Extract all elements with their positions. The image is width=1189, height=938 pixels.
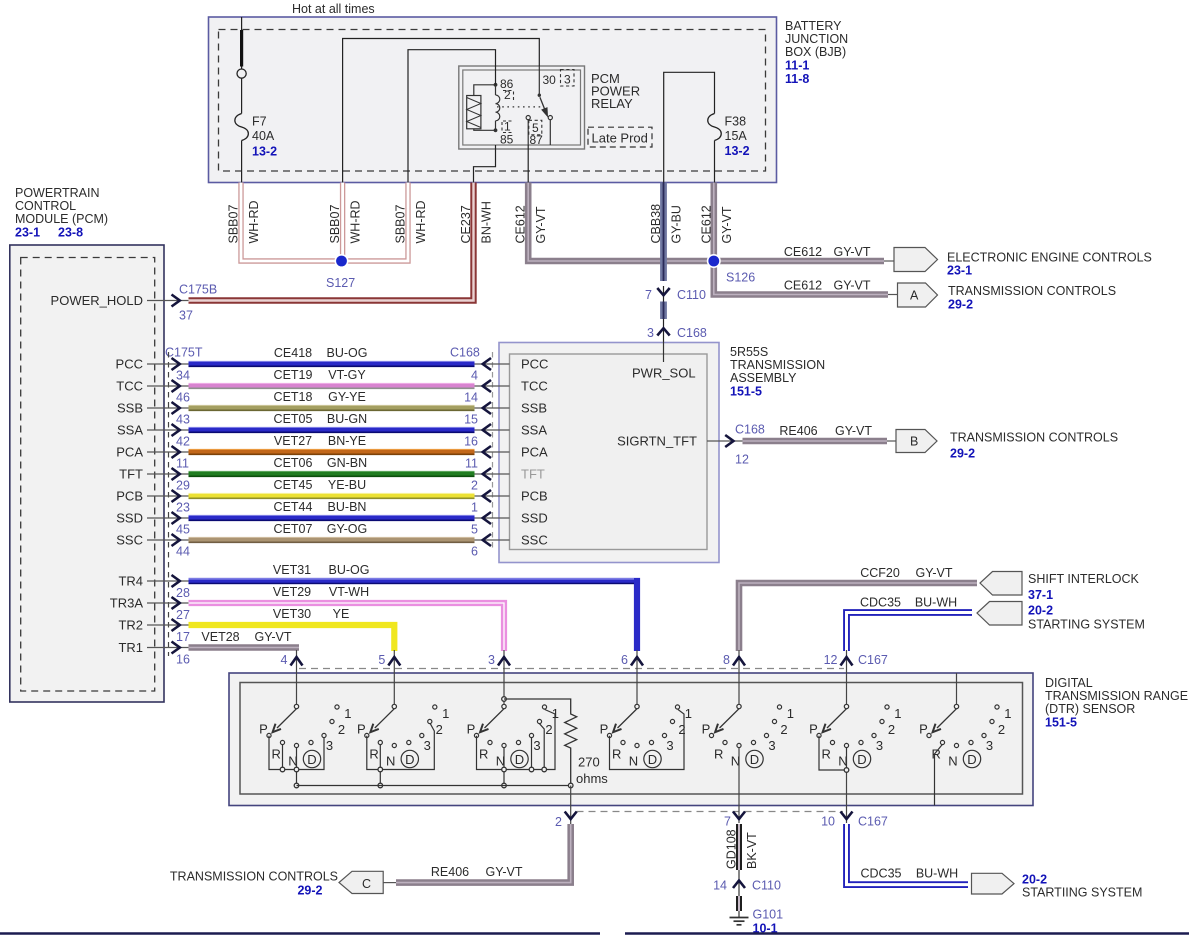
svg-text:TRANSMISSION CONTROLS: TRANSMISSION CONTROLS <box>948 284 1116 298</box>
wire label CET19 VT-GY <box>274 368 367 382</box>
fuse F38 15A <box>664 72 750 182</box>
svg-text:VET31: VET31 <box>273 563 311 577</box>
wire: relay pin 87 to CE612 exit (inside BJB) <box>527 145 529 183</box>
svg-text:VET28: VET28 <box>201 630 239 644</box>
svg-text:4: 4 <box>281 653 288 667</box>
svg-text:TRANSMISSION CONTROLS: TRANSMISSION CONTROLS <box>170 870 338 884</box>
svg-text:G101: G101 <box>753 908 784 922</box>
wire label CET44 BU-BN <box>274 500 367 514</box>
wire label CDC35 BU-WH (bottom) <box>861 867 959 881</box>
wire CE612 GY-VT (relay 87 to S126 and electronic engine controls) <box>528 183 884 262</box>
svg-text:23-8: 23-8 <box>58 226 83 240</box>
svg-text:GY-VT: GY-VT <box>254 630 291 644</box>
svg-text:27: 27 <box>176 608 190 622</box>
wire: relay pin 86 to SBB07 feed (inside BJB) <box>408 50 496 183</box>
C168 pin number 4 <box>471 369 478 383</box>
svg-text:PCC: PCC <box>116 357 143 372</box>
transmission assembly pin label SSB <box>521 401 547 416</box>
svg-text:8: 8 <box>723 653 730 667</box>
PCM pin number 23 <box>176 501 190 515</box>
svg-text:RE406: RE406 <box>431 865 469 879</box>
svg-text:GY-BU: GY-BU <box>670 205 684 243</box>
svg-text:85: 85 <box>500 133 514 147</box>
connector C168 pin 3 (in-line, up arrow) <box>647 326 707 340</box>
C168 pin number 2 <box>471 479 478 493</box>
svg-text:POWERTRAIN: POWERTRAIN <box>15 186 100 200</box>
svg-text:151-5: 151-5 <box>730 385 762 399</box>
svg-text:YE-BU: YE-BU <box>328 478 366 492</box>
relay coil (pins 86/85) <box>467 83 500 132</box>
svg-text:GY-VT: GY-VT <box>833 245 870 259</box>
svg-text:S126: S126 <box>726 271 755 285</box>
DTR switch SW6 (pins 12/10) <box>809 704 901 823</box>
C168 pin SSD stub and arrow <box>475 512 510 524</box>
svg-text:16: 16 <box>464 435 478 449</box>
DTR switch SW5 (pins 8/7) <box>702 704 794 823</box>
svg-text:TR4: TR4 <box>118 574 143 589</box>
wire stub SIGRTN_TFT out of assembly <box>707 435 743 447</box>
svg-text:C110: C110 <box>752 879 781 893</box>
wire CE237 BN-WH (relay 85 to PCM POWER_HOLD) <box>189 183 474 301</box>
ground G101 <box>730 908 784 936</box>
DTR switch SW3 (pin 3, with resistor tap) <box>467 697 559 788</box>
wire label CBB38 GY-BU <box>649 204 684 244</box>
relay pin 1 label (late prod) <box>502 120 513 134</box>
wire CET45 YE-BU <box>189 494 475 499</box>
transmission assembly pin label TFT <box>521 467 545 482</box>
transmission assembly pin label PCB <box>521 489 548 504</box>
PCM pin TR1 stub and arrow <box>118 640 188 655</box>
wire label RE406 GY-VT (bottom) <box>431 865 523 879</box>
svg-text:SSD: SSD <box>116 511 143 526</box>
page footer rule (right segment) <box>625 932 1189 934</box>
svg-text:F38: F38 <box>725 115 747 129</box>
DTR pin 12 lead <box>846 650 848 704</box>
powertrain control module (PCM) outline <box>10 245 164 702</box>
DTR pin 6 lead <box>636 650 638 704</box>
svg-text:4: 4 <box>471 369 478 383</box>
PCM pin number 29 <box>176 479 190 493</box>
wire SBB07 WH-RD (relay 30 to S127) <box>340 183 345 259</box>
svg-text:BN-YE: BN-YE <box>328 434 366 448</box>
battery junction box (BJB) outline <box>209 17 777 183</box>
svg-text:ASSEMBLY: ASSEMBLY <box>730 371 797 385</box>
svg-text:GD108: GD108 <box>725 829 739 869</box>
transmission assembly internal label SIGRTN_TFT <box>617 434 697 449</box>
svg-text:SSD: SSD <box>521 511 548 526</box>
wire CET44 BU-BN <box>189 516 475 521</box>
svg-text:11: 11 <box>465 457 478 471</box>
wire label CCF20 GY-VT <box>860 566 953 580</box>
wire label VET29 VT-WH <box>273 585 369 599</box>
svg-text:6: 6 <box>471 545 478 559</box>
svg-text:GY-VT: GY-VT <box>485 865 522 879</box>
svg-text:BU-OG: BU-OG <box>327 346 368 360</box>
svg-text:BU-BN: BU-BN <box>328 500 367 514</box>
connector C110 pin 7 (in-line, down arrow) <box>645 288 706 302</box>
DTR pin 3 arrow (up) <box>488 653 510 667</box>
svg-text:TRANSMISSION RANGE: TRANSMISSION RANGE <box>1045 689 1188 703</box>
svg-text:C175B: C175B <box>179 283 217 297</box>
svg-text:B: B <box>910 435 918 449</box>
wire CET18 GY-YE <box>189 406 475 411</box>
relay mechanical link (dotted) <box>497 106 541 108</box>
C168 pin PCC stub and arrow <box>475 358 510 370</box>
svg-text:BU-WH: BU-WH <box>915 596 957 610</box>
svg-text:CET06: CET06 <box>274 456 313 470</box>
svg-text:11: 11 <box>176 457 189 471</box>
svg-text:DIGITAL: DIGITAL <box>1045 676 1093 690</box>
PCM pin TCC stub and arrow <box>116 379 188 394</box>
svg-text:14: 14 <box>713 879 727 893</box>
relay name label <box>591 71 640 111</box>
svg-text:SSC: SSC <box>116 533 143 548</box>
C168 pin number 16 <box>464 435 478 449</box>
svg-text:3: 3 <box>488 653 495 667</box>
transmission assembly pin label PCC <box>521 357 548 372</box>
wire VET30 YE (TR2 to DTR pin 5) <box>189 625 395 651</box>
svg-text:45: 45 <box>176 523 190 537</box>
splice S126 <box>708 255 756 285</box>
relay pin 2 label (late prod) <box>503 88 514 103</box>
relay pin 3 label (late prod, dashed box) <box>561 70 575 87</box>
DTR switch SW1 (pin 4) <box>259 704 351 788</box>
splice S127 <box>326 255 355 290</box>
PCM pin TFT stub and arrow <box>119 467 188 482</box>
relay pin 30 label <box>543 73 557 87</box>
DTR pin 10 arrow (down) <box>821 812 852 829</box>
C168 pin PCA stub and arrow <box>475 446 510 458</box>
PCM pin TR3A stub and arrow <box>110 596 189 611</box>
DTR pin 5 lead <box>393 650 395 704</box>
PCM pin number 45 <box>176 523 190 537</box>
C168 pin number 1 <box>471 501 478 515</box>
Late Prod dashed box <box>588 127 652 147</box>
svg-text:TR1: TR1 <box>118 640 143 655</box>
wire label CET18 GY-YE <box>274 390 366 404</box>
svg-text:CET19: CET19 <box>274 368 313 382</box>
wire label CET45 YE-BU <box>274 478 367 492</box>
svg-text:12: 12 <box>824 653 838 667</box>
svg-text:CE612: CE612 <box>784 279 822 293</box>
wire label CDC35 BU-WH <box>860 596 957 610</box>
svg-text:RELAY: RELAY <box>591 96 633 111</box>
digital transmission range (DTR) sensor outline <box>229 673 1033 806</box>
svg-text:Hot at all times: Hot at all times <box>292 2 375 16</box>
wire CET05 BU-GN <box>189 428 475 433</box>
wire CE612 GY-VT (F38 through S126 to transmission controls A) <box>714 183 888 295</box>
PCM pin PCB stub and arrow <box>116 489 188 504</box>
svg-text:17: 17 <box>176 630 190 644</box>
svg-text:GY-VT: GY-VT <box>835 424 872 438</box>
svg-text:GY-VT: GY-VT <box>915 566 952 580</box>
svg-text:BOX (BJB): BOX (BJB) <box>785 45 846 59</box>
svg-text:2: 2 <box>471 479 478 493</box>
wire label CE612 GY-VT (to EEC) <box>784 245 871 259</box>
svg-text:TR2: TR2 <box>118 618 143 633</box>
svg-text:A: A <box>910 289 919 303</box>
svg-text:29-2: 29-2 <box>297 884 322 898</box>
svg-text:7: 7 <box>645 288 652 302</box>
svg-text:C110: C110 <box>677 288 706 302</box>
svg-text:PCB: PCB <box>521 489 548 504</box>
svg-text:C175T: C175T <box>165 346 203 360</box>
svg-text:SIGRTN_TFT: SIGRTN_TFT <box>617 434 697 449</box>
wire label CET06 GN-BN <box>274 456 368 470</box>
svg-text:11-8: 11-8 <box>785 72 809 86</box>
svg-text:VT-GY: VT-GY <box>328 368 366 382</box>
svg-text:JUNCTION: JUNCTION <box>785 32 848 46</box>
DTR pin 8 arrow (up) <box>723 653 745 667</box>
wire VET27 BN-YE <box>189 450 475 455</box>
PCM pin SSD stub and arrow <box>116 511 188 526</box>
svg-text:C167: C167 <box>858 815 888 829</box>
transmission assembly pin label SSD <box>521 511 548 526</box>
svg-text:TRANSMISSION: TRANSMISSION <box>730 358 825 372</box>
C168 pin number 11 <box>465 457 478 471</box>
svg-text:PWR_SOL: PWR_SOL <box>632 366 696 381</box>
svg-text:34: 34 <box>176 369 190 383</box>
C168 pin SSA stub and arrow <box>475 424 510 436</box>
connector C110 pin 14 (up arrow) <box>713 879 781 893</box>
svg-text:CDC35: CDC35 <box>861 867 902 881</box>
DTR pin 4 lead <box>296 650 298 704</box>
svg-text:C168: C168 <box>450 346 480 360</box>
svg-text:C: C <box>362 877 371 891</box>
svg-text:PCA: PCA <box>116 445 143 460</box>
svg-text:PCA: PCA <box>521 445 548 460</box>
svg-text:VT-WH: VT-WH <box>329 585 369 599</box>
wire CDC35 BU-WH (DTR pin 10 to starting system) <box>847 824 969 885</box>
wire label CE418 BU-OG <box>274 346 368 360</box>
DTR pin 2 lead <box>570 786 572 825</box>
svg-text:TFT: TFT <box>119 467 143 482</box>
relay switch (pins 30/87) <box>526 66 552 145</box>
wire label SBB07 WH-RD <box>394 200 429 243</box>
PCM pin number 44 <box>176 545 190 559</box>
svg-text:GY-OG: GY-OG <box>327 522 368 536</box>
wire label VET31 BU-OG <box>273 563 370 577</box>
C168 pin TFT stub and arrow <box>475 468 510 480</box>
PCM pin number 27 <box>176 608 190 622</box>
svg-text:MODULE (PCM): MODULE (PCM) <box>15 212 108 226</box>
off-page connector B: transmission controls <box>896 430 1118 461</box>
svg-text:CET05: CET05 <box>274 412 313 426</box>
svg-text:ELECTRONIC ENGINE CONTROLS: ELECTRONIC ENGINE CONTROLS <box>947 251 1152 265</box>
relay pin 5 label (late prod, dashed box) <box>529 120 542 135</box>
wire label CET07 GY-OG <box>274 522 368 536</box>
svg-text:TRANSMISSION CONTROLS: TRANSMISSION CONTROLS <box>950 431 1118 445</box>
svg-text:CET44: CET44 <box>274 500 313 514</box>
svg-text:(DTR) SENSOR: (DTR) SENSOR <box>1045 702 1135 716</box>
wire label CE612 GY-VT <box>700 205 735 243</box>
svg-text:SSB: SSB <box>117 401 143 416</box>
svg-text:42: 42 <box>176 435 190 449</box>
svg-text:C168: C168 <box>735 423 765 437</box>
svg-text:BU-OG: BU-OG <box>329 563 370 577</box>
svg-text:YE: YE <box>333 607 350 621</box>
wire VET28 GY-VT (TR1 to DTR pin 4) <box>189 644 300 650</box>
svg-text:Late Prod: Late Prod <box>592 130 648 145</box>
svg-text:STARTIING SYSTEM: STARTIING SYSTEM <box>1022 886 1142 900</box>
DTR internal bus wire <box>297 783 574 788</box>
C168 pin SSB stub and arrow <box>475 402 510 414</box>
svg-text:30: 30 <box>543 73 557 87</box>
svg-text:TFT: TFT <box>521 467 545 482</box>
svg-text:GN-BN: GN-BN <box>327 456 367 470</box>
svg-text:GY-VT: GY-VT <box>833 279 870 293</box>
svg-text:2: 2 <box>555 815 562 829</box>
svg-text:SSB: SSB <box>521 401 547 416</box>
DTR pin 5 arrow (up) <box>378 653 400 667</box>
svg-text:20-2: 20-2 <box>1028 604 1053 618</box>
wire label SBB07 WH-RD <box>328 200 363 243</box>
svg-text:CET07: CET07 <box>274 522 313 536</box>
svg-text:29-2: 29-2 <box>950 447 975 461</box>
wire: relay pin 30 to SBB07 feed (inside BJB) <box>343 39 540 183</box>
C168 pin number 14 <box>464 391 478 405</box>
PCM pin number 46 <box>176 391 190 405</box>
BJB label <box>785 19 848 86</box>
svg-text:3: 3 <box>564 73 571 87</box>
wire label VET28 GY-VT <box>201 630 291 644</box>
svg-text:13-2: 13-2 <box>252 145 277 159</box>
wire VET29 VT-WH (TR3A to DTR pin 3) <box>189 603 505 651</box>
off-page connector C: transmission controls <box>170 870 383 898</box>
PCM pin TR2 stub and arrow <box>118 618 188 633</box>
svg-text:VET30: VET30 <box>273 607 311 621</box>
PCM pin SSC stub and arrow <box>116 533 188 548</box>
svg-text:6: 6 <box>621 653 628 667</box>
connector C168 dashed line <box>492 352 494 548</box>
svg-text:13-2: 13-2 <box>725 144 750 158</box>
wire CET19 VT-GY <box>189 384 475 389</box>
svg-text:11-1: 11-1 <box>785 59 809 73</box>
svg-text:28: 28 <box>176 586 190 600</box>
PCM pin SSB stub and arrow <box>117 401 189 416</box>
svg-text:151-5: 151-5 <box>1045 716 1077 730</box>
svg-text:GY-YE: GY-YE <box>328 390 366 404</box>
svg-text:40A: 40A <box>252 129 275 143</box>
connector C168 label (PCM harness side) <box>450 346 480 360</box>
wire label CE612 GY-VT (to A) <box>784 279 871 293</box>
PCM pin number 43 <box>176 413 190 427</box>
svg-text:14: 14 <box>464 391 478 405</box>
C168 pin SSC stub and arrow <box>475 534 510 546</box>
wire stub into PWR_SOL <box>663 342 665 363</box>
PCM pin POWER_HOLD stub <box>51 293 189 308</box>
svg-text:37: 37 <box>179 309 193 323</box>
svg-text:BK-VT: BK-VT <box>745 832 759 869</box>
svg-text:TCC: TCC <box>116 379 143 394</box>
wire CDC35 BU-WH (DTR pin 12 to starting system) <box>847 613 973 652</box>
wire: relay pin 85 to CE237 exit (inside BJB) <box>474 145 496 183</box>
svg-text:RE406: RE406 <box>779 424 817 438</box>
DTR switch SW2 (pin 5) <box>357 704 449 788</box>
relay pin 87 label <box>530 133 544 147</box>
svg-text:SSA: SSA <box>117 423 143 438</box>
relay pin 85 label <box>500 133 514 147</box>
PCM pin number 16 <box>176 653 190 667</box>
svg-text:CET45: CET45 <box>274 478 313 492</box>
transmission assembly pin label SSA <box>521 423 547 438</box>
wire label SBB07 WH-RD <box>227 200 262 243</box>
wire label RE406 GY-VT <box>779 424 872 438</box>
PCM pin TR4 stub and arrow <box>118 574 188 589</box>
wire SBB07 WH-RD (relay 86 to S127) <box>344 183 408 262</box>
DTR pin 6 arrow (up) <box>621 653 643 667</box>
svg-text:PCB: PCB <box>116 489 143 504</box>
PCM pin number 42 <box>176 435 190 449</box>
PCM pin number 28 <box>176 586 190 600</box>
svg-text:WH-RD: WH-RD <box>349 200 363 243</box>
svg-text:TR3A: TR3A <box>110 596 144 611</box>
svg-text:20-2: 20-2 <box>1022 873 1047 887</box>
svg-text:5: 5 <box>471 523 478 537</box>
node: Hot at all times <box>292 2 375 16</box>
wire RE406 GY-VT (DTR pin 2 to transmission controls C) <box>383 824 571 883</box>
off-page connector: shift interlock <box>980 572 1140 603</box>
PCM pin number 17 <box>176 630 190 644</box>
off-page connector: starting system (upper) <box>977 602 1145 632</box>
PCM label <box>15 186 108 240</box>
wire CCF20 GY-VT (DTR pin 8 to shift interlock) <box>739 583 977 651</box>
transmission assembly pin label SSC <box>521 533 548 548</box>
svg-text:23-1: 23-1 <box>947 264 972 278</box>
wire RE406 GY-VT (SIGRTN_TFT to B) <box>743 438 888 445</box>
DTR pin 7 arrow (down) <box>724 812 745 829</box>
svg-text:29: 29 <box>176 479 190 493</box>
svg-text:VET27: VET27 <box>274 434 312 448</box>
DTR pin 8 lead <box>738 650 740 704</box>
wire label GD108 BK-VT <box>725 829 760 869</box>
svg-text:WH-RD: WH-RD <box>414 200 428 243</box>
wire CE418 BU-OG <box>189 362 475 367</box>
svg-text:BATTERY: BATTERY <box>785 19 842 33</box>
svg-text:C167: C167 <box>858 653 888 667</box>
svg-text:15: 15 <box>464 413 478 427</box>
C168 pin number 5 <box>471 523 478 537</box>
svg-text:CDC35: CDC35 <box>860 596 901 610</box>
svg-text:F7: F7 <box>252 115 267 129</box>
svg-text:PCC: PCC <box>521 357 548 372</box>
svg-text:44: 44 <box>176 545 190 559</box>
connector C175B pin 37 <box>179 283 217 323</box>
svg-text:ohms: ohms <box>576 771 608 786</box>
PCM pin number 11 <box>176 457 189 471</box>
svg-text:37-1: 37-1 <box>1028 588 1053 602</box>
off-page connector: starting system (bottom) <box>972 873 1143 900</box>
svg-text:CET18: CET18 <box>274 390 313 404</box>
relay pin 86 label <box>500 77 514 91</box>
connector C167 label (bottom) <box>858 815 888 829</box>
svg-text:SSC: SSC <box>521 533 548 548</box>
PCM pin PCC stub and arrow <box>116 357 189 372</box>
svg-text:16: 16 <box>176 653 190 667</box>
connector C167 label (top) <box>858 653 888 667</box>
svg-text:23-1: 23-1 <box>15 226 40 240</box>
page footer rule (left segment) <box>0 932 600 934</box>
DTR pin 2 arrow (down) <box>555 812 577 830</box>
fuse F7 40A <box>235 17 277 183</box>
wire label VET30 YE <box>273 607 349 621</box>
relay K: PCM power relay box <box>459 66 585 149</box>
DTR pin 4 arrow (up) <box>281 653 303 667</box>
connector C175T label <box>165 346 203 360</box>
wire GD108 BK-VT (DTR pin 7 to ground) <box>738 824 740 917</box>
off-page connector A: transmission controls <box>898 283 1117 312</box>
svg-text:3: 3 <box>647 326 654 340</box>
